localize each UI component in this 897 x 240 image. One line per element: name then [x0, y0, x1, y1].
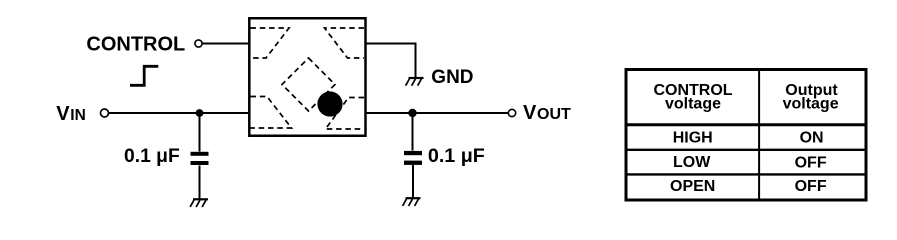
svg-text:voltage: voltage [783, 96, 839, 113]
svg-text:V: V [56, 103, 70, 125]
svg-text:voltage: voltage [665, 96, 721, 113]
svg-text:OPEN: OPEN [670, 178, 715, 195]
svg-text:ON: ON [800, 129, 824, 146]
svg-text:OFF: OFF [795, 178, 827, 195]
svg-text:GND: GND [431, 67, 473, 88]
svg-text:CONTROL: CONTROL [86, 34, 185, 56]
svg-text:LOW: LOW [673, 154, 711, 171]
svg-text:OFF: OFF [795, 154, 827, 171]
svg-text:0.1 μF: 0.1 μF [124, 146, 180, 167]
svg-text:V: V [523, 102, 537, 124]
svg-text:OUT: OUT [537, 106, 571, 123]
svg-text:0.1 μF: 0.1 μF [428, 145, 485, 167]
svg-text:HIGH: HIGH [673, 129, 713, 146]
svg-text:IN: IN [70, 107, 86, 124]
